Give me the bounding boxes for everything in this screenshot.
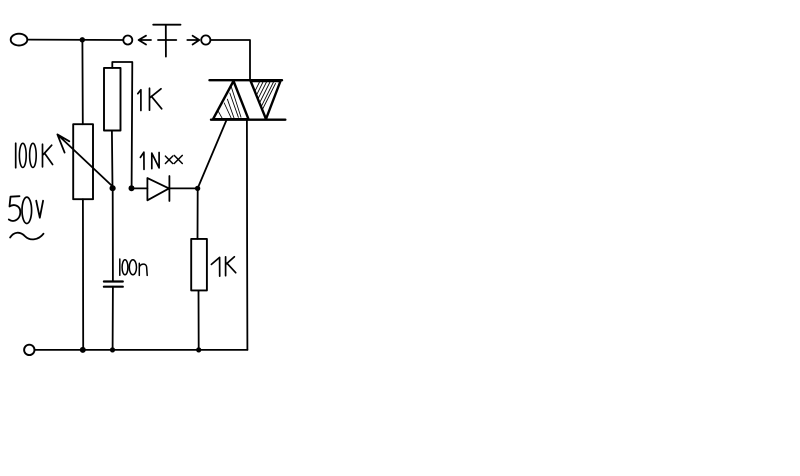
label R3 value 1K: [211, 257, 235, 276]
label source 50v: [9, 196, 43, 223]
resistor R1 1K body: [104, 68, 121, 131]
label R2 value 100K: [16, 143, 53, 168]
wire from right contact to triac MT2: [210, 40, 250, 80]
arrow pointing right from plug: [187, 36, 199, 45]
wire R3 bottom lead to bottom rail: [198, 290, 200, 350]
node G junction (R3 / bottom rail): [196, 347, 201, 352]
potentiometer R2 wiper arrow: [57, 134, 114, 188]
potentiometer R2 body: [73, 124, 93, 199]
terminal contact circle right of plug: [201, 35, 210, 44]
wire node A down to potentiometer top: [81, 40, 83, 124]
diode D1: [134, 176, 197, 201]
terminal T1 top-left: [11, 34, 28, 46]
mains plug symbol X1: [153, 25, 180, 57]
node A junction (top wire / potentiometer): [80, 37, 85, 42]
wire R1 bottom lead down to node C: [111, 131, 114, 188]
label R1 value 1K: [138, 88, 162, 110]
node E junction (pot lead / bottom rail): [80, 347, 86, 353]
label D1 1Nxx: [140, 152, 182, 169]
capacitor C1: [104, 190, 123, 350]
node D junction (diode cathode / gate / R3): [195, 186, 200, 191]
label source tilde: [10, 233, 43, 240]
wire R1 top lead up, right and down to node B: [112, 62, 132, 188]
node C junction (R1 bottom / pot wiper / capacitor): [110, 185, 116, 191]
arrow pointing left at plug: [139, 36, 151, 45]
node F junction (capacitor / bottom rail): [110, 347, 115, 352]
wire bottom rail: [35, 349, 248, 351]
node B junction (R1 top wire / diode anode): [129, 185, 135, 191]
triac U1: [210, 80, 286, 120]
terminal contact circle left of plug: [123, 36, 132, 45]
wire pot bottom lead to bottom rail: [82, 199, 84, 350]
wire node D down to R3: [197, 188, 199, 239]
wire top horizontal from T1 to plug left contact: [27, 39, 123, 41]
label C1 value 100n: [120, 259, 147, 275]
terminal T2 bottom-left: [24, 345, 34, 355]
wire triac gate diagonal to node D: [198, 121, 226, 188]
resistor R3 1K body: [191, 239, 207, 291]
wire triac MT1 lead down to bottom rail: [246, 120, 249, 350]
